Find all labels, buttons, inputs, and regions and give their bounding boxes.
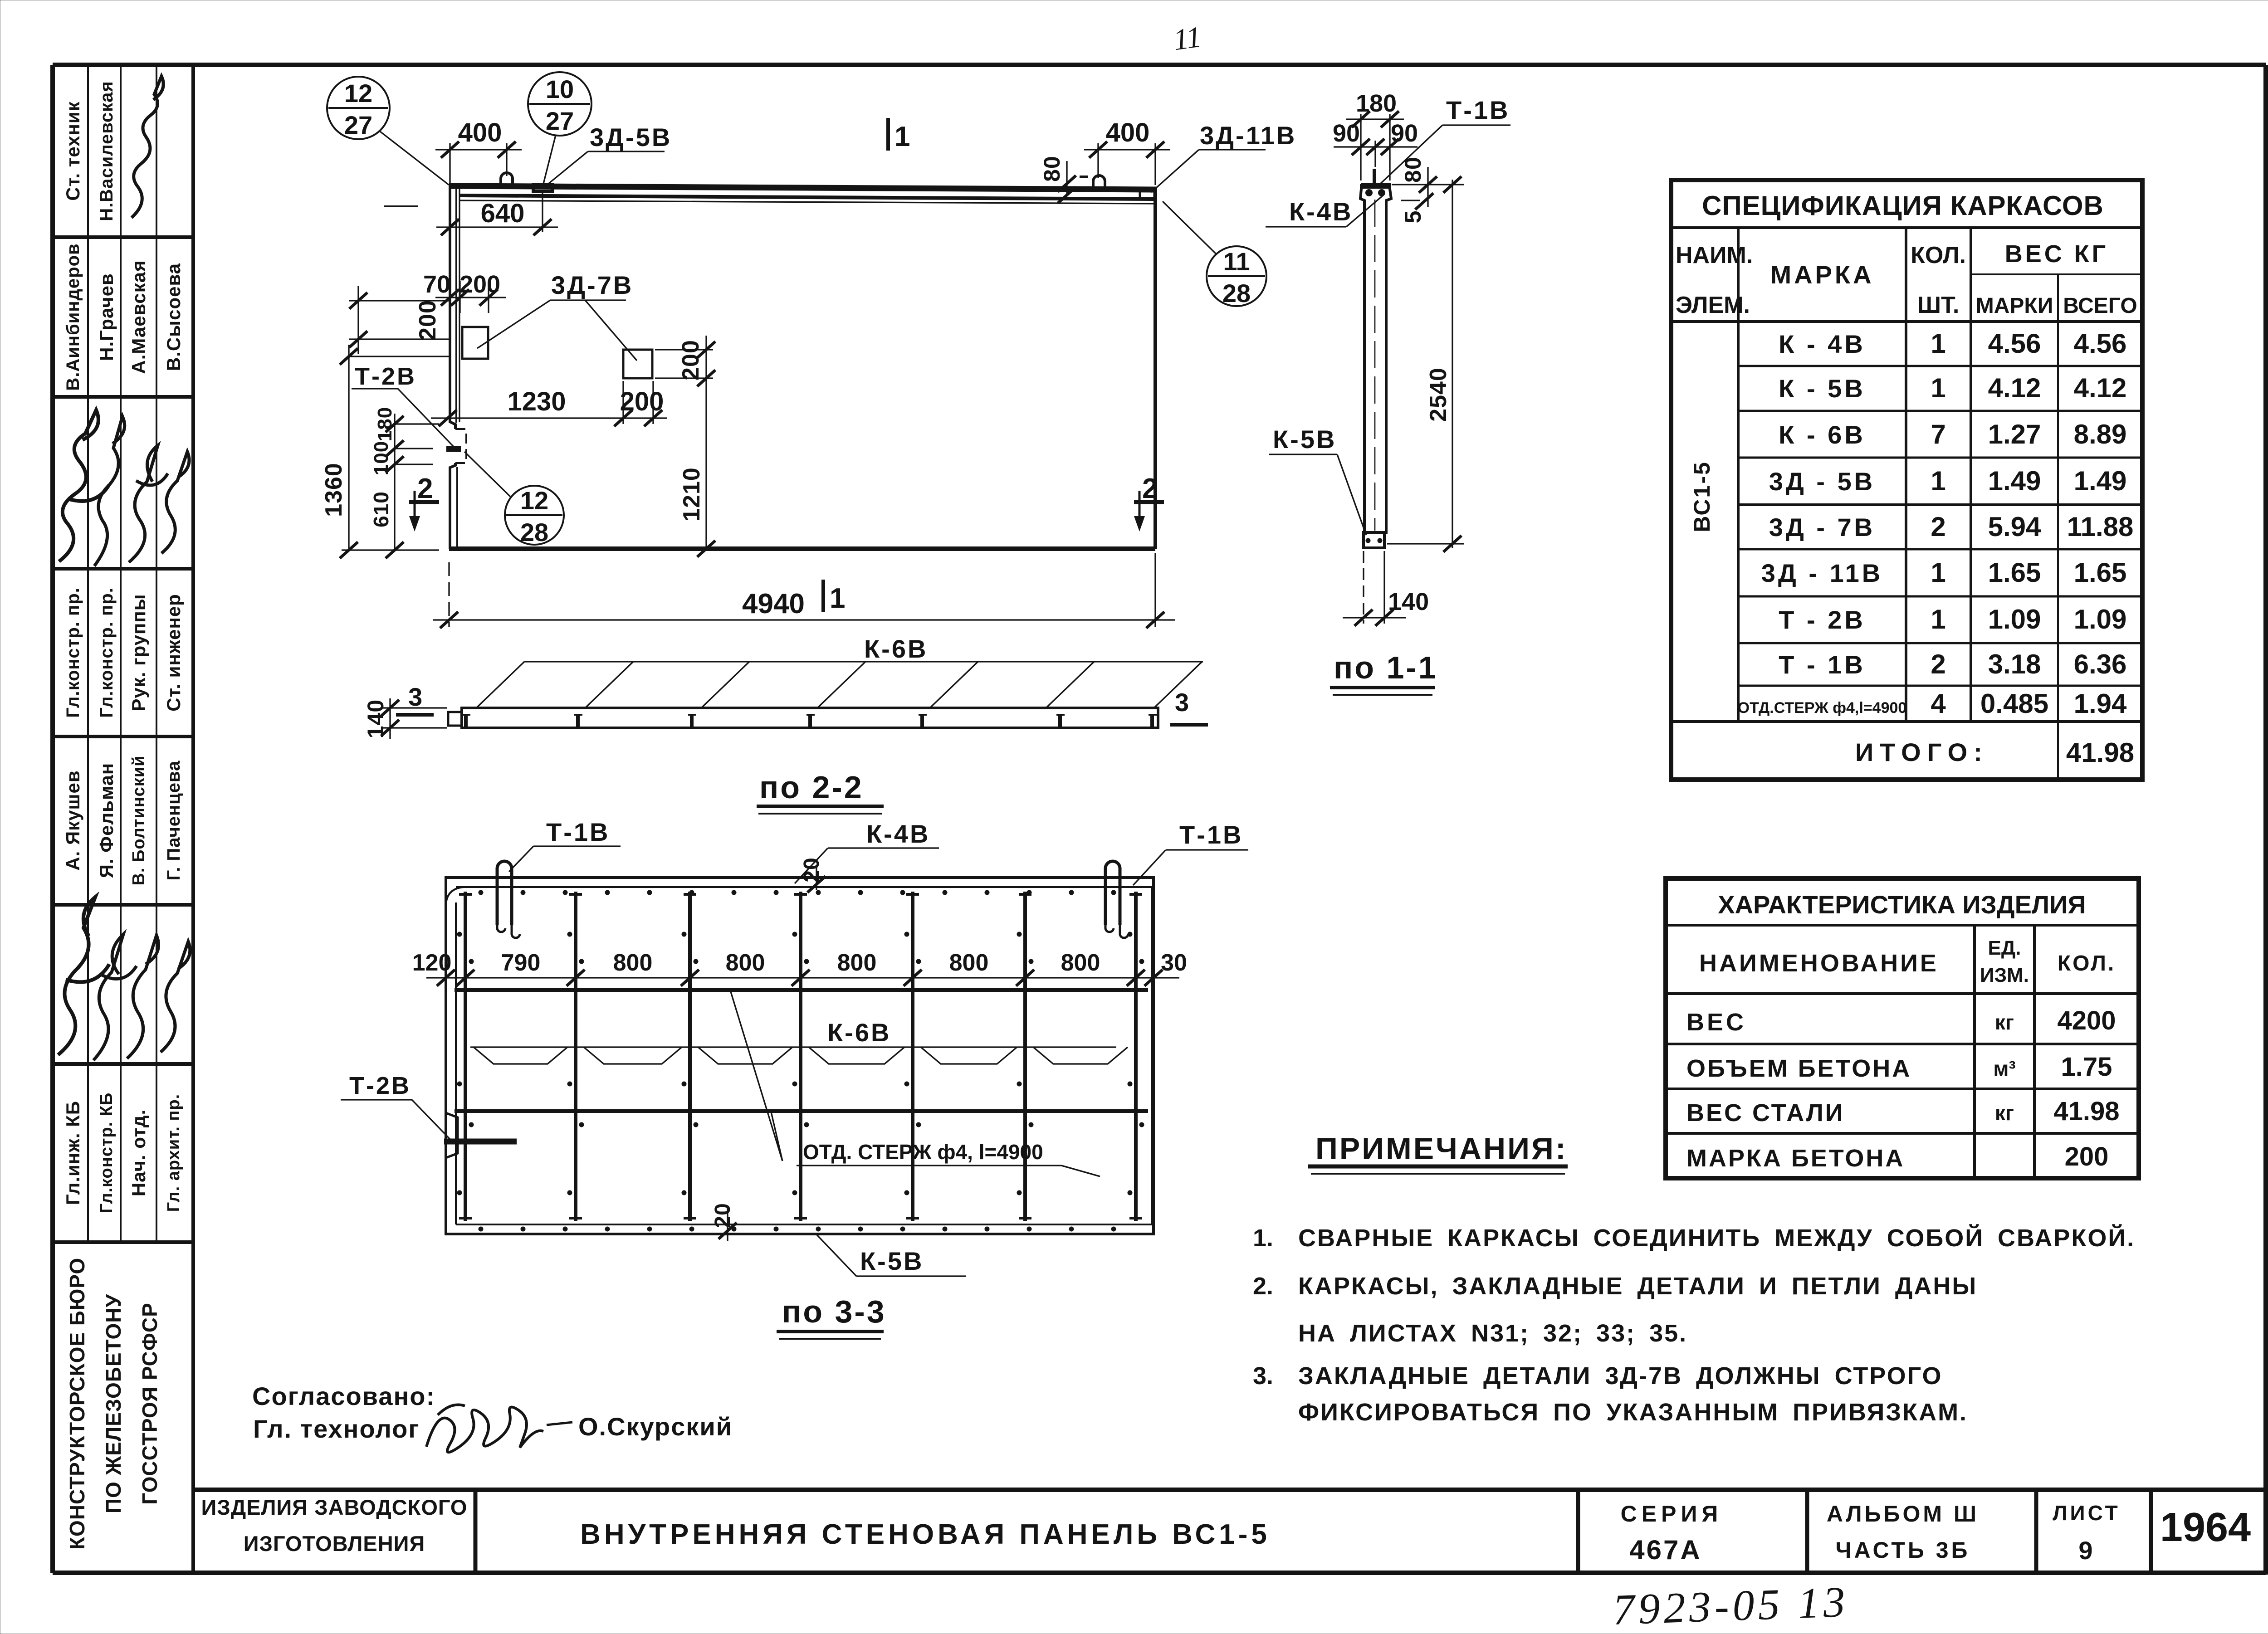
spec table column lines: [1737, 228, 1740, 722]
svg-text:Ст. техник: Ст. техник: [62, 101, 83, 201]
svg-text:ВНУТРЕННЯЯ СТЕНОВАЯ ПАНЕЛЬ: ВНУТРЕННЯЯ СТЕНОВАЯ ПАНЕЛЬ ВС1-5: [580, 1519, 1271, 1550]
svg-text:ОБЪЕМ БЕТОНА: ОБЪЕМ БЕТОНА: [1686, 1055, 1911, 1082]
svg-text:Гл. архит. пр.: Гл. архит. пр.: [164, 1094, 183, 1212]
svg-text:ЧАСТЬ 3Б: ЧАСТЬ 3Б: [1836, 1537, 1970, 1563]
svg-text:28: 28: [1222, 279, 1251, 307]
svg-text:1: 1: [1931, 604, 1945, 634]
svg-text:1.75: 1.75: [2061, 1052, 2112, 1082]
svg-text:8.89: 8.89: [2074, 419, 2127, 449]
callout circle 12/27: [327, 77, 390, 139]
leader 10/27: [543, 135, 556, 185]
svg-text:1.27: 1.27: [1988, 419, 2041, 449]
svg-text:Гл. технолог: Гл. технолог: [253, 1415, 420, 1443]
sheet frame: [53, 63, 2266, 67]
svg-text:К-5В: К-5В: [860, 1247, 924, 1275]
svg-text:А. Якушев: А. Якушев: [62, 770, 83, 870]
svg-text:ЗАКЛАДНЫЕ ДЕТАЛИ 3Д-7В ДОЛЖ: ЗАКЛАДНЫЕ ДЕТАЛИ 3Д-7В ДОЛЖНЫ СТРОГО: [1298, 1362, 1943, 1390]
svg-text:3: 3: [1175, 688, 1189, 717]
section 3-3 outer rect: [446, 878, 1154, 1234]
svg-text:1: 1: [894, 121, 910, 152]
bottom dim connector line: [342, 549, 439, 551]
svg-text:ГОССТРОЯ РСФСР: ГОССТРОЯ РСФСР: [138, 1302, 161, 1505]
section 3-3 inner top line: [456, 886, 1152, 888]
dim row 120 790 800x5 30: [426, 977, 1179, 978]
svg-text:КОЛ.: КОЛ.: [1911, 242, 1966, 268]
top recess double line: [459, 195, 1155, 199]
dim 200 right of square2: [655, 349, 713, 350]
svg-text:12: 12: [520, 486, 548, 515]
svg-text:467А: 467А: [1629, 1535, 1701, 1565]
panel outline main view: [449, 186, 1157, 190]
K-6B leader line horizontal: [524, 661, 1203, 662]
svg-text:ВЕС КГ: ВЕС КГ: [2005, 240, 2109, 268]
svg-text:Гл.инж. КБ: Гл.инж. КБ: [62, 1101, 83, 1205]
svg-text:120: 120: [412, 950, 452, 976]
svg-text:Т-1В: Т-1В: [1446, 96, 1510, 124]
embed plate 3Д-5В on top edge: [533, 185, 552, 191]
dim 1210: [705, 390, 707, 549]
svg-text:СВАРНЫЕ КАРКАСЫ СОЕДИНИТЬ М: СВАРНЫЕ КАРКАСЫ СОЕДИНИТЬ МЕЖДУ СОБОЙ СВ…: [1298, 1224, 2135, 1252]
svg-text:2: 2: [1931, 649, 1945, 679]
svg-text:41.98: 41.98: [2066, 737, 2134, 768]
svg-text:400: 400: [1106, 118, 1150, 147]
svg-text:1.65: 1.65: [2074, 557, 2127, 588]
svg-text:АЛЬБОМ Ш: АЛЬБОМ Ш: [1827, 1501, 1979, 1527]
dims 180 100 610: [396, 423, 439, 424]
hairpin loop T-1B right: [1105, 861, 1120, 925]
svg-text:4.56: 4.56: [2074, 328, 2127, 359]
dim 90 90: [1374, 141, 1376, 167]
svg-text:Т-2В: Т-2В: [349, 1072, 411, 1099]
svg-text:2: 2: [417, 473, 433, 504]
svg-text:180: 180: [374, 407, 396, 441]
svg-text:2: 2: [1142, 473, 1158, 504]
svg-text:27: 27: [546, 107, 574, 135]
svg-text:1.49: 1.49: [1988, 466, 2041, 496]
svg-text:610: 610: [369, 491, 393, 527]
signatures row 2: [58, 897, 109, 1055]
hairpin loop T-1B left: [497, 861, 512, 925]
column bottom cap: [1364, 532, 1384, 548]
svg-text:3.: 3.: [1253, 1362, 1273, 1390]
dim 140 section 1-1: [1363, 551, 1364, 624]
svg-text:СПЕЦИФИКАЦИЯ КАРКАСОВ: СПЕЦИФИКАЦИЯ КАРКАСОВ: [1702, 190, 2104, 221]
svg-text:800: 800: [613, 950, 653, 976]
svg-text:5: 5: [1400, 210, 1426, 224]
svg-text:К-6В: К-6В: [827, 1018, 891, 1047]
svg-text:200: 200: [415, 300, 441, 341]
section 3-3 inner side lines: [446, 887, 464, 905]
svg-text:4200: 4200: [2057, 1006, 2116, 1035]
svg-text:90: 90: [1333, 120, 1360, 147]
svg-text:О.Скурский: О.Скурский: [578, 1412, 733, 1441]
svg-text:ПРИМЕЧАНИЯ:: ПРИМЕЧАНИЯ:: [1315, 1132, 1568, 1166]
svg-text:70: 70: [423, 271, 450, 298]
svg-text:ПО ЖЕЛЕЗОБЕТОНУ: ПО ЖЕЛЕЗОБЕТОНУ: [102, 1294, 125, 1514]
vertical frames K-6B: [464, 892, 467, 1221]
dim 4940: [448, 562, 450, 627]
svg-text:А.Маевская: А.Маевская: [128, 260, 149, 374]
specification table frame: [1671, 180, 2142, 780]
svg-text:3Д - 5В: 3Д - 5В: [1769, 467, 1875, 496]
svg-text:3Д-7В: 3Д-7В: [551, 271, 633, 299]
svg-text:ВС1-5: ВС1-5: [1689, 461, 1715, 532]
svg-text:К-5В: К-5В: [1273, 425, 1336, 454]
svg-text:3Д-5В: 3Д-5В: [590, 123, 672, 151]
dim 400 left: [449, 143, 450, 183]
svg-text:Н.Василевская: Н.Василевская: [97, 81, 117, 221]
svg-text:ИТОГО:: ИТОГО:: [1855, 738, 1989, 766]
svg-text:К - 6В: К - 6В: [1779, 420, 1866, 449]
longitudinal bar dots bottom: [479, 1227, 484, 1232]
section 2-2 strip: [462, 708, 1158, 728]
svg-text:1.94: 1.94: [2074, 688, 2127, 719]
longitudinal bar dots top: [479, 890, 484, 895]
svg-text:по 1-1: по 1-1: [1334, 650, 1438, 685]
svg-text:1: 1: [1931, 466, 1945, 496]
svg-text:Н.Грачев: Н.Грачев: [96, 273, 117, 361]
svg-text:ВЕС: ВЕС: [1686, 1009, 1746, 1036]
svg-text:КОЛ.: КОЛ.: [2058, 951, 2116, 976]
svg-text:12: 12: [344, 79, 372, 107]
svg-text:К-4В: К-4В: [866, 819, 930, 848]
dim 640: [542, 192, 543, 232]
svg-text:Согласовано:: Согласовано:: [252, 1382, 435, 1410]
svg-text:по 3-3: по 3-3: [782, 1294, 886, 1329]
middle thin bar with laps: [470, 1046, 1116, 1048]
svg-text:1: 1: [1931, 328, 1945, 359]
svg-text:ОТД.СТЕРЖ ф4,l=4900: ОТД.СТЕРЖ ф4,l=4900: [1738, 699, 1907, 717]
svg-text:кг: кг: [1995, 1101, 2014, 1125]
svg-text:МАРКИ: МАРКИ: [1976, 294, 2053, 318]
section mark 1 top: [886, 118, 890, 151]
svg-text:20: 20: [800, 857, 824, 882]
svg-text:Гл.констр. пр.: Гл.констр. пр.: [97, 587, 117, 718]
T-2B notch on left edge: [446, 1113, 458, 1158]
dim 180 section 1-1: [1360, 114, 1361, 180]
dim 1360: [349, 356, 449, 357]
center dash line: [1374, 200, 1376, 531]
leaders to rods: [731, 992, 782, 1161]
staff strip column lines: [53, 235, 193, 239]
svg-text:СЕРИЯ: СЕРИЯ: [1621, 1501, 1723, 1527]
upper rod ОТД.СТЕРЖ: [455, 988, 1148, 992]
svg-text:Гл.констр. пр.: Гл.констр. пр.: [63, 587, 83, 718]
svg-text:800: 800: [949, 950, 989, 976]
svg-text:1.65: 1.65: [1988, 557, 2041, 588]
strip left tab: [448, 712, 462, 726]
svg-text:1: 1: [830, 583, 845, 614]
svg-text:4.12: 4.12: [2074, 373, 2127, 403]
svg-text:3Д-11В: 3Д-11В: [1200, 121, 1296, 150]
svg-text:ЕД.: ЕД.: [1988, 937, 2021, 959]
svg-text:180: 180: [1356, 90, 1397, 117]
embed plate 3Д-11В at right corner: [1140, 190, 1154, 199]
svg-text:11.88: 11.88: [2067, 512, 2134, 542]
svg-text:5.94: 5.94: [1988, 512, 2041, 542]
svg-text:ОТД. СТЕРЖ ф4, l=4900: ОТД. СТЕРЖ ф4, l=4900: [803, 1140, 1043, 1164]
svg-text:1360: 1360: [321, 463, 347, 517]
svg-text:ХАРАКТЕРИСТИКА ИЗДЕЛИЯ: ХАРАКТЕРИСТИКА ИЗДЕЛИЯ: [1718, 890, 2086, 919]
section mark 1 bottom: [821, 580, 825, 612]
svg-text:90: 90: [1391, 120, 1418, 147]
svg-text:1.09: 1.09: [2074, 604, 2127, 634]
svg-text:7: 7: [1931, 419, 1945, 449]
svg-text:11: 11: [1223, 247, 1250, 276]
svg-text:3Д - 11В: 3Д - 11В: [1761, 559, 1883, 587]
svg-text:НАИМЕНОВАНИЕ: НАИМЕНОВАНИЕ: [1699, 950, 1939, 977]
svg-text:кг: кг: [1995, 1010, 2014, 1034]
svg-text:ИЗГОТОВЛЕНИЯ: ИЗГОТОВЛЕНИЯ: [244, 1532, 425, 1556]
svg-text:В.Аинбиндеров: В.Аинбиндеров: [63, 243, 83, 390]
svg-text:ЭЛЕМ.: ЭЛЕМ.: [1676, 292, 1750, 318]
svg-text:4.56: 4.56: [1988, 328, 2041, 359]
svg-text:1230: 1230: [507, 387, 566, 416]
svg-text:1210: 1210: [679, 467, 705, 522]
svg-text:Я. Фельман: Я. Фельман: [96, 763, 117, 878]
svg-text:800: 800: [726, 950, 765, 976]
svg-text:МАРКА: МАРКА: [1770, 260, 1874, 289]
svg-text:4.12: 4.12: [1988, 373, 2041, 403]
signature Скурский: [426, 1405, 543, 1453]
dash near right hook: [1080, 176, 1088, 178]
svg-text:200: 200: [2065, 1142, 2109, 1171]
svg-text:Т-1В: Т-1В: [1179, 820, 1243, 849]
svg-text:4940: 4940: [742, 588, 805, 619]
svg-text:К-4В: К-4В: [1289, 197, 1353, 226]
svg-text:В. Болтинский: В. Болтинский: [129, 755, 148, 885]
svg-text:1: 1: [1931, 373, 1945, 403]
signatures row 1: [59, 410, 109, 561]
svg-text:2540: 2540: [1425, 367, 1452, 422]
svg-text:200: 200: [620, 387, 664, 416]
svg-text:Г. Паченцева: Г. Паченцева: [164, 761, 184, 881]
section 1-1 column: [1361, 184, 1391, 532]
svg-text:В.Сысоева: В.Сысоева: [163, 263, 184, 371]
svg-text:0.485: 0.485: [1980, 688, 2048, 719]
svg-text:МАРКА БЕТОНА: МАРКА БЕТОНА: [1686, 1145, 1905, 1172]
svg-text:Ст. инженер: Ст. инженер: [163, 594, 184, 712]
svg-text:640: 640: [481, 199, 525, 228]
svg-text:Нач. отд.: Нач. отд.: [128, 1109, 149, 1196]
svg-text:10: 10: [546, 75, 574, 103]
svg-text:Т - 1В: Т - 1В: [1779, 650, 1866, 679]
svg-text:ЛИСТ: ЛИСТ: [2053, 1501, 2121, 1525]
leader 12/28 to notch: [464, 452, 510, 497]
svg-text:м³: м³: [1993, 1057, 2015, 1080]
lifting hook right: [1093, 176, 1105, 189]
svg-text:2.: 2.: [1253, 1273, 1273, 1300]
T-2B rod: [444, 1139, 517, 1145]
rebar dots in top flange: [1365, 189, 1373, 196]
svg-text:ВСЕГО: ВСЕГО: [2063, 294, 2137, 318]
dim 400 right: [1097, 143, 1099, 178]
dim 200 left of square1: [349, 300, 449, 301]
svg-text:200: 200: [678, 340, 704, 380]
loop stub on top: [1373, 169, 1376, 183]
signature Василевская: [132, 76, 163, 218]
dim 80 and 5: [1392, 184, 1464, 185]
K-6B leader diagonals: [476, 662, 524, 708]
svg-text:по 2-2: по 2-2: [759, 770, 864, 805]
T-2B anchor stub: [446, 446, 461, 452]
svg-text:80: 80: [1039, 156, 1065, 182]
svg-text:30: 30: [1161, 950, 1187, 976]
embed plate 3Д-7В no.1: [462, 327, 488, 359]
svg-text:1.: 1.: [1253, 1224, 1273, 1252]
svg-text:790: 790: [501, 950, 541, 976]
svg-text:2: 2: [1931, 512, 1945, 542]
embed plate 3Д-7В no.2: [623, 350, 652, 378]
svg-text:6.36: 6.36: [2074, 649, 2127, 679]
svg-text:20: 20: [711, 1203, 735, 1228]
svg-text:КАРКАСЫ, ЗАКЛАДНЫЕ ДЕТАЛИ И: КАРКАСЫ, ЗАКЛАДНЫЕ ДЕТАЛИ И ПЕТЛИ ДАНЫ: [1298, 1273, 1977, 1300]
svg-text:К-6В: К-6В: [864, 634, 928, 663]
svg-text:КОНСТРУКТОРСКОЕ БЮРО: КОНСТРУКТОРСКОЕ БЮРО: [65, 1258, 89, 1550]
leader 11/28: [1163, 201, 1216, 254]
svg-text:ФИКСИРОВАТЬСЯ ПО УКАЗАННЫМ: ФИКСИРОВАТЬСЯ ПО УКАЗАННЫМ ПРИВЯЗКАМ.: [1298, 1399, 1968, 1426]
lower rod ОТД.СТЕРЖ: [455, 1109, 1148, 1113]
svg-text:28: 28: [520, 518, 548, 546]
svg-text:11: 11: [1171, 20, 1203, 57]
svg-text:3: 3: [408, 683, 422, 711]
svg-text:200: 200: [459, 271, 500, 298]
column top flange line: [1361, 185, 1390, 189]
dim 1230 and 200 under squares: [431, 417, 667, 419]
svg-text:800: 800: [837, 950, 877, 976]
svg-text:1.49: 1.49: [2074, 466, 2127, 496]
svg-text:140: 140: [1388, 588, 1429, 615]
svg-text:1.09: 1.09: [1988, 604, 2041, 634]
svg-text:41.98: 41.98: [2053, 1097, 2119, 1126]
svg-text:7923-05 13: 7923-05 13: [1612, 1577, 1849, 1634]
dim 2540: [1452, 180, 1453, 548]
title block: [193, 1488, 2266, 1492]
svg-text:80: 80: [1400, 156, 1426, 183]
svg-text:Т-2В: Т-2В: [355, 363, 416, 390]
svg-text:НАИМ.: НАИМ.: [1676, 242, 1753, 268]
svg-text:1: 1: [1931, 557, 1945, 588]
dash and name: [547, 1422, 572, 1425]
characteristics table frame: [1666, 878, 2139, 1178]
svg-text:ИЗМ.: ИЗМ.: [1980, 964, 2029, 986]
svg-text:3Д - 7В: 3Д - 7В: [1769, 513, 1875, 541]
svg-text:3.18: 3.18: [1988, 649, 2041, 679]
svg-text:ИЗДЕЛИЯ ЗАВОДСКОГО: ИЗДЕЛИЯ ЗАВОДСКОГО: [201, 1495, 467, 1519]
svg-text:Гл.констр. КБ: Гл.констр. КБ: [97, 1093, 116, 1214]
svg-text:800: 800: [1061, 950, 1100, 976]
callout circle 11/28: [1207, 246, 1266, 306]
svg-text:НА ЛИСТАХ N31; 32; 33; 35.: НА ЛИСТАХ N31; 32; 33; 35.: [1298, 1320, 1687, 1347]
svg-text:Т-1В: Т-1В: [546, 818, 610, 846]
svg-text:ВЕС СТАЛИ: ВЕС СТАЛИ: [1686, 1099, 1845, 1127]
svg-text:Рук. группы: Рук. группы: [128, 594, 149, 711]
section 3-3 inner bottom line: [456, 1224, 1152, 1225]
svg-text:К - 5В: К - 5В: [1779, 374, 1866, 403]
panel left edge profile: [450, 186, 455, 429]
svg-text:400: 400: [458, 118, 502, 147]
svg-text:4: 4: [1931, 688, 1946, 719]
svg-text:100: 100: [370, 441, 392, 475]
keyway notch T-2B: [455, 429, 466, 463]
callout circle 12/28: [505, 486, 564, 545]
callout circle 10/27: [528, 72, 591, 136]
svg-text:К - 4В: К - 4В: [1779, 330, 1866, 358]
svg-text:9: 9: [2078, 1536, 2092, 1565]
svg-text:Т - 2В: Т - 2В: [1779, 605, 1866, 634]
lifting hook left: [501, 173, 513, 186]
dim 70 200: [435, 297, 506, 298]
svg-text:ШТ.: ШТ.: [1917, 292, 1960, 318]
svg-text:1964: 1964: [2160, 1505, 2251, 1550]
leader 12/27: [380, 132, 449, 185]
svg-text:27: 27: [344, 111, 372, 139]
stub line near corner: [384, 205, 418, 207]
rebar marks in strip: [464, 714, 468, 727]
